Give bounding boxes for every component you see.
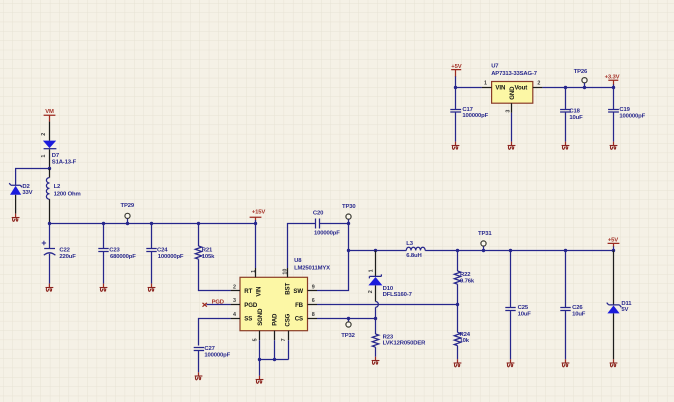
svg-text:5V: 5V xyxy=(621,307,628,313)
junction TP29 xyxy=(126,222,129,225)
svg-text:RT: RT xyxy=(244,288,252,295)
svg-text:2: 2 xyxy=(233,285,236,291)
junction D10 cathode xyxy=(374,249,377,252)
svg-text:10uF: 10uF xyxy=(572,311,586,317)
junction CS/R23 xyxy=(374,317,377,320)
svg-text:100000pF: 100000pF xyxy=(314,230,340,236)
svg-text:Vout: Vout xyxy=(515,85,528,92)
wire BST up and over to C20 xyxy=(288,224,316,269)
ground below C27 xyxy=(195,372,203,380)
ground below D2 xyxy=(12,214,20,222)
svg-text:2: 2 xyxy=(41,133,47,136)
testpoint TP29 xyxy=(121,203,135,223)
svg-text:TP32: TP32 xyxy=(341,333,355,339)
svg-text:10: 10 xyxy=(283,269,289,275)
svg-text:1: 1 xyxy=(251,270,257,273)
pin 2 of U7 xyxy=(533,87,543,89)
wire SW node to L3 xyxy=(349,250,407,252)
pin 5 SGND stub xyxy=(259,331,261,341)
capacitor C24 xyxy=(146,224,156,284)
pin 7 CSG stub xyxy=(288,331,290,341)
svg-text:1: 1 xyxy=(41,155,47,158)
svg-text:R21: R21 xyxy=(202,247,213,253)
ground below R24 xyxy=(454,359,462,367)
svg-text:4: 4 xyxy=(233,312,236,318)
capacitor C18 xyxy=(560,88,571,142)
svg-text:SGND: SGND xyxy=(257,308,264,326)
pin 3 PGD stub xyxy=(231,304,240,306)
svg-text:33V: 33V xyxy=(22,190,32,196)
junction C26 xyxy=(564,249,567,252)
svg-text:C23: C23 xyxy=(109,248,120,254)
svg-text:C18: C18 xyxy=(569,109,580,115)
junction TP31 xyxy=(482,249,485,252)
svg-text:C20: C20 xyxy=(313,210,324,216)
testpoint TP31 xyxy=(478,231,492,251)
svg-text:10uF: 10uF xyxy=(569,115,583,121)
ground below C17 xyxy=(452,142,460,150)
svg-text:1: 1 xyxy=(369,269,375,272)
pin 10 BST stub xyxy=(287,268,289,277)
capacitor C25 xyxy=(505,251,515,360)
svg-text:D2: D2 xyxy=(22,184,30,190)
wire to D2 xyxy=(16,169,50,186)
power port VM xyxy=(44,109,56,122)
ground below D11 xyxy=(610,359,618,367)
svg-text:C19: C19 xyxy=(619,107,630,113)
svg-text:SS: SS xyxy=(244,316,252,323)
svg-text:100000pF: 100000pF xyxy=(158,254,184,260)
svg-text:10k: 10k xyxy=(460,338,470,344)
svg-text:C27: C27 xyxy=(204,346,215,352)
svg-text:2: 2 xyxy=(537,81,540,87)
wire FB net xyxy=(317,304,458,306)
junction C17/+5V xyxy=(454,86,457,89)
junction PAD xyxy=(273,358,276,361)
svg-text:9: 9 xyxy=(312,285,315,291)
ground below C23 xyxy=(100,284,108,292)
svg-text:LM25011MYX: LM25011MYX xyxy=(294,266,330,272)
diode D7 pin1 lead xyxy=(49,149,51,168)
svg-text:DFLS160-7: DFLS160-7 xyxy=(383,292,413,298)
capacitor C17 xyxy=(450,88,461,142)
junction TP26 xyxy=(583,86,586,89)
junction L2/C22/rail xyxy=(48,222,51,225)
pin 1 of U7 xyxy=(482,87,492,89)
testpoint TP32 xyxy=(341,319,355,340)
junction C25 xyxy=(509,249,512,252)
svg-text:TP26: TP26 xyxy=(574,69,588,75)
capacitor C26 xyxy=(560,251,570,360)
wire CS net xyxy=(317,318,376,320)
ground below R23 xyxy=(372,357,380,365)
svg-text:VM: VM xyxy=(45,109,54,115)
svg-text:100000pF: 100000pF xyxy=(619,113,645,119)
svg-text:C24: C24 xyxy=(157,248,168,254)
testpoint TP30 xyxy=(342,204,356,223)
svg-text:C26: C26 xyxy=(572,305,583,311)
diode D10 cathode lead xyxy=(375,251,377,277)
junction TP32 xyxy=(347,317,350,320)
svg-text:8: 8 xyxy=(312,312,315,318)
svg-text:CS: CS xyxy=(295,316,303,323)
pin 4 SS stub xyxy=(231,318,240,320)
svg-text:D7: D7 xyxy=(52,153,60,159)
resistor R21 xyxy=(195,224,230,291)
svg-text:U8: U8 xyxy=(294,258,302,264)
pin 8 CS stub xyxy=(308,318,318,320)
pin 11 PAD stub xyxy=(274,331,276,341)
capacitor C27 xyxy=(194,348,204,373)
svg-text:C25: C25 xyxy=(518,305,529,311)
IC U8 body xyxy=(240,258,330,331)
svg-text:R22: R22 xyxy=(460,272,471,278)
junction FB divider xyxy=(456,303,459,306)
svg-text:105k: 105k xyxy=(202,254,215,260)
diode D10 anode lead with hop over FB xyxy=(375,285,377,301)
svg-text:2: 2 xyxy=(368,290,374,293)
wire Vout net xyxy=(542,87,613,89)
svg-text:3: 3 xyxy=(233,298,236,304)
power port +3.3V xyxy=(605,74,620,87)
svg-text:7: 7 xyxy=(281,338,287,341)
wire pin3 to ground xyxy=(511,113,513,142)
power port +5V input xyxy=(451,64,462,87)
power port +15V xyxy=(250,210,266,224)
junction C24 xyxy=(150,222,153,225)
svg-text:U7: U7 xyxy=(491,63,499,69)
capacitor C19 xyxy=(608,88,619,142)
svg-text:TP29: TP29 xyxy=(121,203,135,209)
ground below C26 xyxy=(562,359,570,367)
junction SW riser / L3 line xyxy=(347,249,350,252)
ground below U7 xyxy=(508,142,516,150)
resistor R22 xyxy=(454,251,460,333)
svg-text:+5V: +5V xyxy=(608,237,618,243)
svg-text:+15V: +15V xyxy=(252,210,266,216)
svg-text:LVK12R050DER: LVK12R050DER xyxy=(383,341,427,347)
zener D11 xyxy=(607,251,622,360)
svg-text:VIN: VIN xyxy=(256,287,263,297)
svg-text:R24: R24 xyxy=(460,332,471,338)
inductor L3 xyxy=(406,247,613,250)
svg-text:9.76k: 9.76k xyxy=(460,279,475,285)
resistor R24 xyxy=(454,332,460,359)
junction C23 xyxy=(102,222,105,225)
junction +15V/VIN xyxy=(254,222,257,225)
svg-text:6.8uH: 6.8uH xyxy=(406,253,421,259)
svg-text:R23: R23 xyxy=(383,334,394,340)
junction R21 xyxy=(197,222,200,225)
capacitor C22 (polarized) xyxy=(42,224,56,284)
ground below C22 xyxy=(46,284,54,292)
net label PGD with no-ERC cross xyxy=(203,299,231,306)
junction R22 top xyxy=(456,249,459,252)
wires SGND/PAD/CSG to ground xyxy=(260,340,289,359)
resistor R23 xyxy=(372,334,378,357)
pin 3 of U7 xyxy=(511,103,513,113)
ground below C25 xyxy=(507,359,515,367)
svg-text:L2: L2 xyxy=(54,184,61,190)
ground below C18 xyxy=(562,142,570,150)
junction C18 xyxy=(564,86,567,89)
capacitor C20 xyxy=(316,219,349,229)
svg-text:S1A-13-F: S1A-13-F xyxy=(52,159,77,165)
wire VIN pin to rail xyxy=(255,224,257,269)
testpoint TP26 xyxy=(574,69,588,88)
svg-text:3: 3 xyxy=(505,110,511,113)
power port +5V output xyxy=(608,237,620,250)
svg-text:SW: SW xyxy=(293,288,303,295)
junction D11 xyxy=(612,249,615,252)
svg-text:5: 5 xyxy=(253,338,259,341)
diode D7 pin2 lead xyxy=(49,122,51,141)
svg-text:VIN: VIN xyxy=(495,85,505,92)
svg-text:10uF: 10uF xyxy=(518,311,532,317)
svg-text:+3.3V: +3.3V xyxy=(605,74,620,80)
svg-text:TP31: TP31 xyxy=(478,231,492,237)
svg-text:CSG: CSG xyxy=(284,313,291,326)
pin 9 SW stub xyxy=(308,290,318,292)
pin 2 RT stub xyxy=(231,290,240,292)
svg-text:L3: L3 xyxy=(406,241,413,247)
regulator U7 body xyxy=(491,63,538,103)
svg-text:100000pF: 100000pF xyxy=(204,352,230,358)
svg-text:C22: C22 xyxy=(59,248,70,254)
wire anode to CS node xyxy=(375,307,377,334)
wire SW riser xyxy=(317,224,349,291)
svg-text:TP30: TP30 xyxy=(342,204,356,210)
junction SGND xyxy=(258,358,261,361)
svg-text:100000pF: 100000pF xyxy=(462,113,488,119)
svg-text:AP7313-33SAG-7: AP7313-33SAG-7 xyxy=(491,71,538,77)
svg-text:1: 1 xyxy=(484,81,487,87)
capacitor C23 xyxy=(98,224,108,284)
ground below U8 xyxy=(256,376,264,384)
junction C19/+3.3V xyxy=(612,86,615,89)
diode D10 (schottky) xyxy=(368,274,382,285)
node junction D7/L2/D2 xyxy=(48,167,51,170)
main input rail wire xyxy=(50,223,256,225)
ground below C24 xyxy=(148,284,156,292)
wire SS to C27 xyxy=(199,319,231,346)
svg-text:PGD: PGD xyxy=(244,302,258,309)
svg-text:BST: BST xyxy=(284,283,291,295)
wire hop xyxy=(376,302,379,308)
wire +5V to U7 pin1 xyxy=(456,87,482,89)
pin 6 FB stub xyxy=(308,304,318,306)
inductor L2 xyxy=(46,169,49,224)
pin 1 VIN stub xyxy=(255,268,257,277)
svg-text:PAD: PAD xyxy=(271,313,278,326)
zener D2 xyxy=(9,183,22,213)
junction C20/TP30/SW riser xyxy=(347,222,350,225)
svg-text:220uF: 220uF xyxy=(59,254,76,260)
ground below C19 xyxy=(610,142,618,150)
svg-text:FB: FB xyxy=(295,302,304,309)
svg-text:1200 Ohm: 1200 Ohm xyxy=(54,191,81,197)
diode D7 xyxy=(43,141,57,149)
svg-text:680000pF: 680000pF xyxy=(110,254,136,260)
svg-text:6: 6 xyxy=(312,298,315,304)
wire down to IC ground xyxy=(259,360,261,376)
